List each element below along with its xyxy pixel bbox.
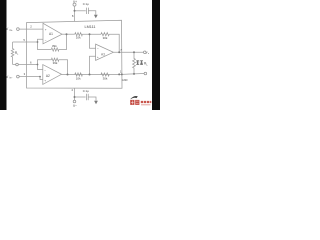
watermark red text line (141, 101, 152, 103)
right black border bar (152, 0, 160, 110)
svg-text:GND: GND (122, 78, 128, 82)
junction dot V+ cap (74, 10, 76, 12)
svg-text:39k: 39k (53, 61, 58, 65)
IC package box outline LM111 (27, 20, 123, 88)
svg-text:V+: V+ (73, 0, 77, 4)
junction dot A1 output (66, 33, 68, 35)
resistor Rf1 39k zigzag (51, 48, 59, 51)
junction dot comparator minus tap (89, 33, 91, 35)
terminal output (144, 51, 147, 54)
svg-text:30k: 30k (103, 36, 108, 40)
svg-text:0.1μ: 0.1μ (83, 89, 89, 93)
terminal bottom rail (144, 72, 147, 75)
resistor R5 30k zigzag (101, 73, 109, 76)
resistor R4 10k zigzag (75, 73, 83, 76)
wire comparator plus input tap (90, 56, 96, 74)
junction dot RL top (133, 51, 135, 53)
wire V- to bypass cap (75, 96, 86, 98)
watermark logo dark cap (131, 96, 138, 99)
svg-text:A1: A1 (49, 32, 53, 36)
op-amp A1 (43, 23, 62, 44)
wire 10k to 30k (82, 33, 101, 35)
wire Rf1 to A1 output (59, 34, 67, 49)
wire cap to ground (88, 11, 95, 15)
capacitor C2 0.1u plates (85, 94, 87, 100)
wire pin3 input (19, 77, 43, 80)
resistor Rf2 39k zigzag (51, 58, 59, 61)
svg-text:A2: A2 (46, 74, 50, 78)
wire A2 output row to box edge pin1 (62, 74, 145, 75)
svg-text:30k: 30k (103, 76, 108, 80)
wire V- supply vertical pin4 (74, 88, 76, 100)
capacitor C1 0.1u plates (86, 8, 88, 14)
svg-text:V−: V− (73, 104, 77, 108)
resistor R3 30k zigzag (101, 33, 109, 36)
junction dot V- cap (74, 96, 76, 98)
junction dot pin6 (37, 64, 39, 66)
wire A2 feedback loop (38, 60, 52, 70)
svg-text:0.1μ: 0.1μ (83, 2, 89, 6)
op-amp A2 (43, 65, 62, 85)
svg-text:+: + (44, 78, 46, 82)
wire A1 output to comparator row (62, 33, 75, 35)
svg-text:−: − (45, 38, 47, 42)
junction dot comparator plus tap (89, 74, 91, 76)
resistor R1 vertical zigzag (11, 42, 14, 65)
left black border bar (0, 0, 7, 110)
svg-text:10k: 10k (76, 76, 81, 80)
junction dot ground tap (121, 73, 123, 75)
terminal pin6 (16, 63, 19, 66)
watermark red square characters (130, 100, 139, 105)
svg-text:LM111: LM111 (84, 25, 95, 29)
svg-text:10k: 10k (76, 36, 81, 40)
terminal Vin- (17, 75, 20, 78)
svg-text:+: + (45, 28, 47, 32)
wire comparator minus input tap (90, 34, 96, 48)
junction dot RL bottom (133, 73, 135, 75)
wire cap2 to ground (88, 97, 96, 101)
junction dot A2 output (67, 74, 69, 76)
load resistor label (CJK simulated) (136, 60, 143, 64)
wire pin6 (13, 64, 38, 66)
terminal Vin+ (17, 28, 20, 31)
wire V+ supply vertical pin8 (74, 6, 76, 21)
junction dot feedback bottom (118, 73, 120, 75)
junction dot pin3 (39, 76, 41, 78)
comparator A3 LM111 triangle (96, 44, 114, 60)
terminal V+ (73, 3, 76, 6)
terminal V- (73, 100, 76, 103)
ground arrow top (94, 15, 98, 18)
junction dot output feedback (118, 51, 120, 53)
junction dot pin5 R1 (37, 41, 39, 43)
svg-text:A3: A3 (101, 53, 105, 57)
wire A1 feedback loop (38, 39, 52, 49)
svg-text:39k: 39k (52, 44, 57, 48)
wire load resistor top stub (133, 52, 135, 58)
wire pin5 balance (13, 41, 38, 43)
svg-text:−: − (44, 68, 46, 72)
resistor R2 10k zigzag (75, 33, 83, 36)
wire Rf2 to A2 output (59, 60, 68, 75)
ground arrow bottom cap (94, 101, 98, 104)
resistor RL vertical zigzag (133, 58, 136, 74)
svg-text:+: + (97, 55, 99, 59)
wire pin2 input (19, 28, 43, 30)
wire 30k to feedback vertical (109, 34, 119, 52)
wire comparator output (113, 51, 143, 53)
watermark faint second line (141, 104, 151, 106)
wire V+ to bypass cap (75, 10, 86, 12)
svg-text:−: − (97, 47, 99, 51)
